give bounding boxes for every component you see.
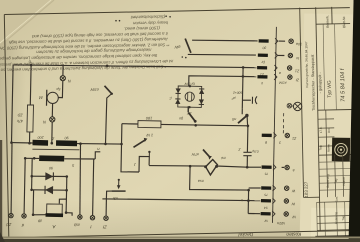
cap2 to row Wa — [246, 156, 248, 167]
svg-text:74 5 84 104 f: 74 5 84 104 f — [339, 67, 347, 102]
gu2 contact bridge to resistor row — [187, 106, 189, 112]
nsr contact bracket — [139, 157, 149, 173]
svg-text:a: a — [279, 71, 281, 75]
svg-text:0,5µ: 0,5µ — [252, 149, 259, 153]
diode D2 — [45, 186, 53, 194]
svg-text:90: 90 — [65, 136, 69, 140]
connector row Wa (y165) — [262, 165, 272, 169]
svg-text:ZD: ZD — [17, 113, 23, 117]
terminal f — [90, 216, 94, 220]
svg-text:gW: gW — [174, 45, 180, 49]
svg-text:M: M — [39, 95, 43, 100]
svg-text:N: N — [68, 79, 71, 84]
svg-text:75: 75 — [264, 193, 268, 197]
vertical from choke junction to terminal mB — [79, 144, 82, 215]
resistor 180 1W — [122, 123, 138, 125]
resistor R 47k vertical — [29, 65, 32, 105]
jog down from y166 wire — [190, 166, 249, 190]
svg-text:Gl 5 W: Gl 5 W — [184, 82, 195, 86]
svg-text:mB: mB — [74, 222, 80, 226]
diode limiter verticals — [31, 158, 34, 190]
svg-text:103 227: 103 227 — [304, 181, 309, 198]
wire diode rail down to junction — [65, 190, 67, 199]
nSt long wire — [102, 198, 106, 200]
svg-text:Tag: Tag — [341, 216, 345, 221]
svg-text:Kosten: Kosten — [286, 231, 301, 237]
wire choke row to right — [77, 143, 122, 146]
svg-text:500+2: 500+2 — [233, 91, 243, 95]
choke row B winding 3 — [25, 157, 39, 159]
svg-text:µ: µ — [261, 82, 263, 86]
svg-text:nSW: nSW — [90, 87, 99, 91]
svg-text:N: N — [43, 120, 46, 125]
svg-text:200: 200 — [38, 135, 45, 139]
revision table — [326, 155, 329, 197]
wire: left rail vertical — [12, 65, 14, 143]
svg-text:90: 90 — [49, 166, 53, 170]
svg-text:54: 54 — [264, 206, 268, 210]
microphone M — [47, 92, 58, 103]
svg-text:Änderung: Änderung — [326, 174, 330, 188]
T contact arrow — [134, 140, 146, 148]
vertical feeder x242 — [241, 67, 244, 108]
svg-text:J: J — [134, 162, 137, 166]
svg-text:180: 180 — [145, 116, 152, 120]
connector strip vertical — [273, 27, 277, 223]
capacitor C2 — [243, 151, 251, 153]
wire microphone down to terminal N lower — [51, 103, 53, 116]
wire row A to x122 — [120, 143, 123, 146]
footnote asterisks — [165, 15, 167, 17]
choke core line — [32, 148, 79, 151]
svg-text:Name: Name — [326, 144, 330, 152]
terminal mB — [78, 215, 82, 219]
svg-text:nS: nS — [231, 117, 236, 121]
row a (top rail to pin) — [243, 67, 257, 69]
diode limiter rails — [32, 175, 67, 177]
svg-text:Änderung: Änderung — [334, 212, 338, 225]
gu switch top — [185, 39, 191, 53]
svg-text:Zd: Zd — [6, 222, 13, 227]
connector row 2 (y186) — [261, 186, 271, 190]
node b on top rail — [30, 64, 33, 67]
svg-text:Sp: Sp — [56, 87, 60, 91]
svg-text:Tag: Tag — [334, 178, 338, 183]
svg-text:Bemerk.: Bemerk. — [325, 15, 329, 28]
paper crease top-left — [0, 0, 52, 44]
connector row La (y133) — [262, 134, 272, 138]
svg-text:30: 30 — [262, 46, 266, 50]
svg-text:3: 3 — [279, 140, 281, 144]
svg-text:Typ WG: Typ WG — [327, 80, 333, 98]
rectifier bridge with receiver — [178, 86, 202, 108]
connector row 3 (y199) — [261, 199, 271, 203]
choke row A: winding 1 — [33, 140, 49, 146]
dial contact rhombus nsa/nsi — [216, 166, 247, 167]
bridge diodes — [176, 88, 181, 93]
svg-text:Name: Name — [342, 177, 346, 186]
svg-text:75: 75 — [264, 172, 268, 176]
bridge top wire — [189, 76, 243, 86]
svg-text:Blatt-Nr.: Blatt-Nr. — [342, 16, 346, 28]
title small table — [318, 118, 334, 120]
mS contact — [241, 108, 243, 114]
svg-text:aTW: aTW — [191, 152, 199, 156]
terminal N upper — [62, 64, 64, 75]
svg-text:(Sicherheitseinheit: (Sicherheitseinheit — [130, 14, 165, 20]
svg-text:17.8.: 17.8. — [319, 126, 323, 133]
choke row A: winding 2 — [56, 140, 77, 146]
svg-text:- gekuppelt -: - gekuppelt - — [318, 71, 322, 93]
capacitor C1 (500pF) stub — [242, 99, 251, 101]
bottom-right table — [316, 202, 319, 236]
svg-text:Z1: Z1 — [295, 69, 300, 73]
svg-text:Deckel: Deckel — [237, 231, 253, 237]
svg-text:30a: 30a — [296, 42, 302, 46]
junction dots on vertical feeder — [242, 66, 245, 69]
terminal Zd — [9, 213, 13, 217]
wire nsr to dial contact — [149, 165, 205, 168]
node on top rail above nSW — [106, 65, 109, 68]
stamp — [332, 138, 350, 162]
wire row 30b — [188, 53, 256, 56]
frame border — [4, 8, 350, 15]
vertical x122 resistor row to nsr contact — [121, 124, 139, 172]
nSt contact — [106, 191, 111, 199]
wire to choke junction — [51, 122, 53, 143]
vertical from diode rail to dot at bottom — [32, 190, 35, 215]
wire row 30a — [192, 39, 258, 42]
svg-text:Zust.: Zust. — [334, 196, 338, 203]
lamp large — [293, 102, 301, 110]
wire: left rail down to terminal Zd — [10, 143, 13, 214]
wire dot to coil box — [33, 214, 46, 216]
scan edge black bar — [348, 0, 360, 242]
svg-text:nsi: nsi — [221, 156, 226, 160]
connector row 4 (y212) — [261, 212, 271, 216]
row KOM — [243, 76, 257, 78]
scan left edge — [0, 140, 2, 242]
electromagnet coil A — [47, 204, 63, 214]
nSW contact — [105, 86, 112, 94]
svg-text:a: a — [293, 168, 295, 172]
wire terminal N to microphone — [58, 81, 62, 98]
mechanical link dashes — [283, 113, 285, 116]
title block separator lines — [300, 8, 304, 198]
lamp small — [287, 103, 292, 108]
svg-text:KOM: KOM — [279, 81, 287, 85]
svg-text:1 W: 1 W — [146, 133, 153, 137]
svg-text:Z1: Z1 — [292, 136, 297, 140]
svg-text:A: A — [52, 224, 56, 229]
wire elbow to terminal row — [66, 213, 72, 216]
wire coil top elbow — [59, 199, 66, 213]
svg-text:heavy duty version: heavy duty version — [132, 20, 168, 26]
aTW contact arrow — [203, 150, 210, 158]
vertical to terminal f — [93, 159, 94, 215]
vertical link rows 2-4 — [247, 190, 249, 213]
svg-text:Drd.: Drd. — [327, 127, 331, 133]
svg-text:W2a: W2a — [277, 221, 285, 225]
svg-text:nsa: nsa — [198, 179, 204, 183]
vertical x248 resistor row to cap2 — [246, 126, 249, 152]
vertical row B to terminal d — [24, 158, 25, 213]
row B corner with n tap — [95, 152, 100, 159]
connector pins rows 30 — [259, 39, 269, 43]
terminal d — [22, 214, 26, 218]
vertical to terminal Zf from nSt wire — [105, 199, 107, 216]
wire: left rail to choke row — [12, 142, 33, 144]
terminal Zf — [104, 216, 108, 220]
wire: top rail — [13, 65, 243, 68]
svg-text:Tag: Tag — [318, 145, 322, 150]
svg-text:gu: gu — [179, 116, 183, 120]
svg-text:tu: tu — [296, 56, 299, 60]
wire nSW down to choke row — [106, 94, 112, 144]
scan bottom edge — [0, 239, 360, 242]
diode D1 — [45, 172, 53, 180]
